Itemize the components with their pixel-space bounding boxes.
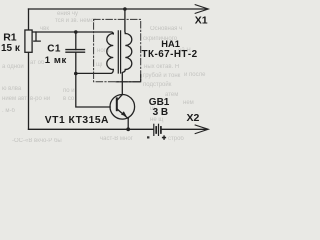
svg-text:Основная ч: Основная ч [150,26,182,32]
terminal X2 arrow [195,125,208,134]
terminal X1 arrow [195,5,208,14]
wire R1 bottom lead [28,53,30,130]
wire top rail [29,8,207,10]
node base junction [74,72,78,76]
svg-text:ю влва: ю влва [2,86,22,92]
svg-text:С1: С1 [47,43,61,54]
node winding II to top rail junction [123,7,127,11]
label battery minus tick [147,136,149,138]
HA1 enclosure bottom-right solid corner [116,75,141,82]
svg-text:НА1: НА1 [161,39,180,49]
wire bottom rail left [29,128,154,130]
HA1 enclosure dash-dot box [94,19,141,81]
svg-text:ат об: ат об [30,60,45,66]
label GB1 value 3V [153,107,169,118]
wire base node to winding I bottom [76,70,114,74]
svg-text:и после: и после [184,72,206,78]
wire C1 bottom lead [75,52,77,73]
label X2 [187,112,200,124]
svg-text:R1: R1 [3,31,17,43]
svg-text:грубой и тонк: грубой и тонк [143,72,181,79]
svg-text:нием авт: нием авт [2,96,27,102]
svg-text:в-ро ни: в-ро ни [30,96,50,102]
label C1 value 1uF [45,55,67,66]
node C1 top junction [74,30,78,34]
label X1 [195,15,208,27]
svg-text:тся и зв. немог: тся и зв. немог [55,18,97,24]
wire R1 top lead [28,9,30,30]
transformer core [118,31,120,73]
wire winding II top lead [124,9,126,34]
label R1 value 15k [1,43,21,54]
svg-text:-ОС-«В вкчо-Р бы: -ОС-«В вкчо-Р бы [12,138,62,144]
transistor VT1 body [110,95,135,120]
svg-text:а однои: а однои [2,64,24,70]
svg-text:ения чу: ения чу [57,11,78,17]
label C1 [47,43,61,54]
label GB1 [149,97,170,108]
transistor VT1 base bar [116,98,118,110]
resistor R1 [25,30,32,52]
svg-text:подстройк: подстройк [143,81,172,88]
label VT1 KT315A [45,115,109,126]
svg-text:ных октав. Н: ных октав. Н [144,64,179,70]
label battery plus sign [162,135,166,139]
svg-text:чвк: чвк [40,26,49,32]
svg-text:3 В: 3 В [153,107,169,118]
transformer HA1 winding I [107,34,113,70]
svg-text:ТК-67-НТ-2: ТК-67-НТ-2 [142,49,198,60]
label HA1 type TK-67-NT-2 [142,49,198,60]
transistor VT1 collector stroke [117,95,123,101]
wire emitter lead [127,119,129,130]
faint scan ghost texture (decorative) [2,11,206,144]
svg-text:15 к: 15 к [1,43,21,54]
svg-text:нем: нем [183,100,194,106]
node emitter to bottom rail [126,127,130,131]
svg-text:част-В мног: част-В мног [100,136,134,142]
transistor VT1 emitter stroke with arrow [117,109,128,119]
wire R1 tap to mid rail [32,32,40,41]
svg-text:по и: по и [63,88,75,94]
wire winding II bottom lead to collector [122,70,125,95]
wire C1 top lead [75,32,77,50]
label R1 [3,31,17,43]
wire base node down to transistor base [76,74,110,108]
svg-text:щί: щί [96,62,103,68]
wire mid rail to transformer [36,32,113,34]
svg-text:Х1: Х1 [195,15,208,27]
svg-text:. м-б: . м-б [2,108,15,114]
battery GB1 [154,124,161,135]
svg-text:1 мк: 1 мк [45,55,67,66]
label HA1 [161,39,180,49]
svg-text:VT1 КТ315А: VT1 КТ315А [45,115,109,126]
capacitor C1 [66,50,85,53]
svg-text:строб: строб [168,136,184,142]
transformer winding II [125,34,132,70]
svg-text:в со: в со [63,96,75,102]
svg-text:Х2: Х2 [187,112,200,124]
wire bottom rail right [161,128,206,130]
